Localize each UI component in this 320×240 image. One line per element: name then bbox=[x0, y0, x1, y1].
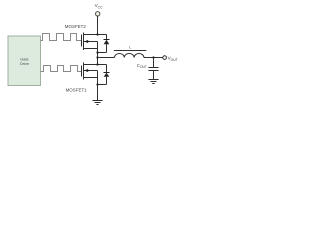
wire waveform gate signal 2 (top PWM trace) bbox=[41, 34, 82, 41]
svg-text:COUT: COUT bbox=[137, 63, 147, 69]
inductor L bbox=[114, 51, 147, 58]
gate drive block bbox=[8, 36, 41, 86]
wire switch node to inductor bbox=[98, 57, 115, 59]
node VOUT terminal circle bbox=[163, 56, 167, 60]
transistor MOSFET2 body arrow bbox=[84, 40, 88, 43]
junction switch node bbox=[96, 56, 98, 58]
junction D1 anode bbox=[96, 51, 98, 53]
svg-text:MOSFET2: MOSFET2 bbox=[65, 24, 87, 29]
svg-text:L: L bbox=[129, 44, 132, 49]
svg-text:Drive: Drive bbox=[20, 61, 29, 66]
junction MOSFET1 source bbox=[96, 83, 98, 85]
transistor MOSFET1 (low side) bbox=[82, 63, 98, 85]
ground (output) bbox=[148, 80, 158, 84]
svg-text:VCC: VCC bbox=[95, 3, 104, 9]
transistor MOSFET2 (high side) bbox=[82, 33, 98, 58]
transistor MOSFET1 body arrow bbox=[84, 69, 88, 72]
wire inductor to output bbox=[144, 57, 163, 59]
svg-text:MOSFET1: MOSFET1 bbox=[66, 88, 88, 93]
diode D1 (body diode of MOSFET2) bbox=[98, 35, 110, 53]
junction VCC-drain bbox=[96, 33, 98, 35]
wire drain line MOSFET2 bbox=[84, 34, 107, 36]
capacitor COUT bbox=[148, 58, 158, 80]
svg-text:VOUT: VOUT bbox=[168, 56, 178, 62]
wire to ground bbox=[97, 85, 99, 101]
node VCC terminal circle bbox=[96, 12, 100, 16]
wire switch vertical bbox=[97, 58, 99, 65]
junction output node bbox=[152, 56, 154, 58]
junction MOSFET1 drain bbox=[96, 63, 98, 65]
wire waveform gate signal 1 (bottom PWM trace) bbox=[41, 66, 82, 72]
ground (power) bbox=[92, 101, 102, 105]
wire drain line MOSFET1 bbox=[84, 64, 107, 66]
diode D2 (body diode of MOSFET1) bbox=[98, 65, 110, 85]
wire VCC vertical bbox=[97, 16, 99, 35]
